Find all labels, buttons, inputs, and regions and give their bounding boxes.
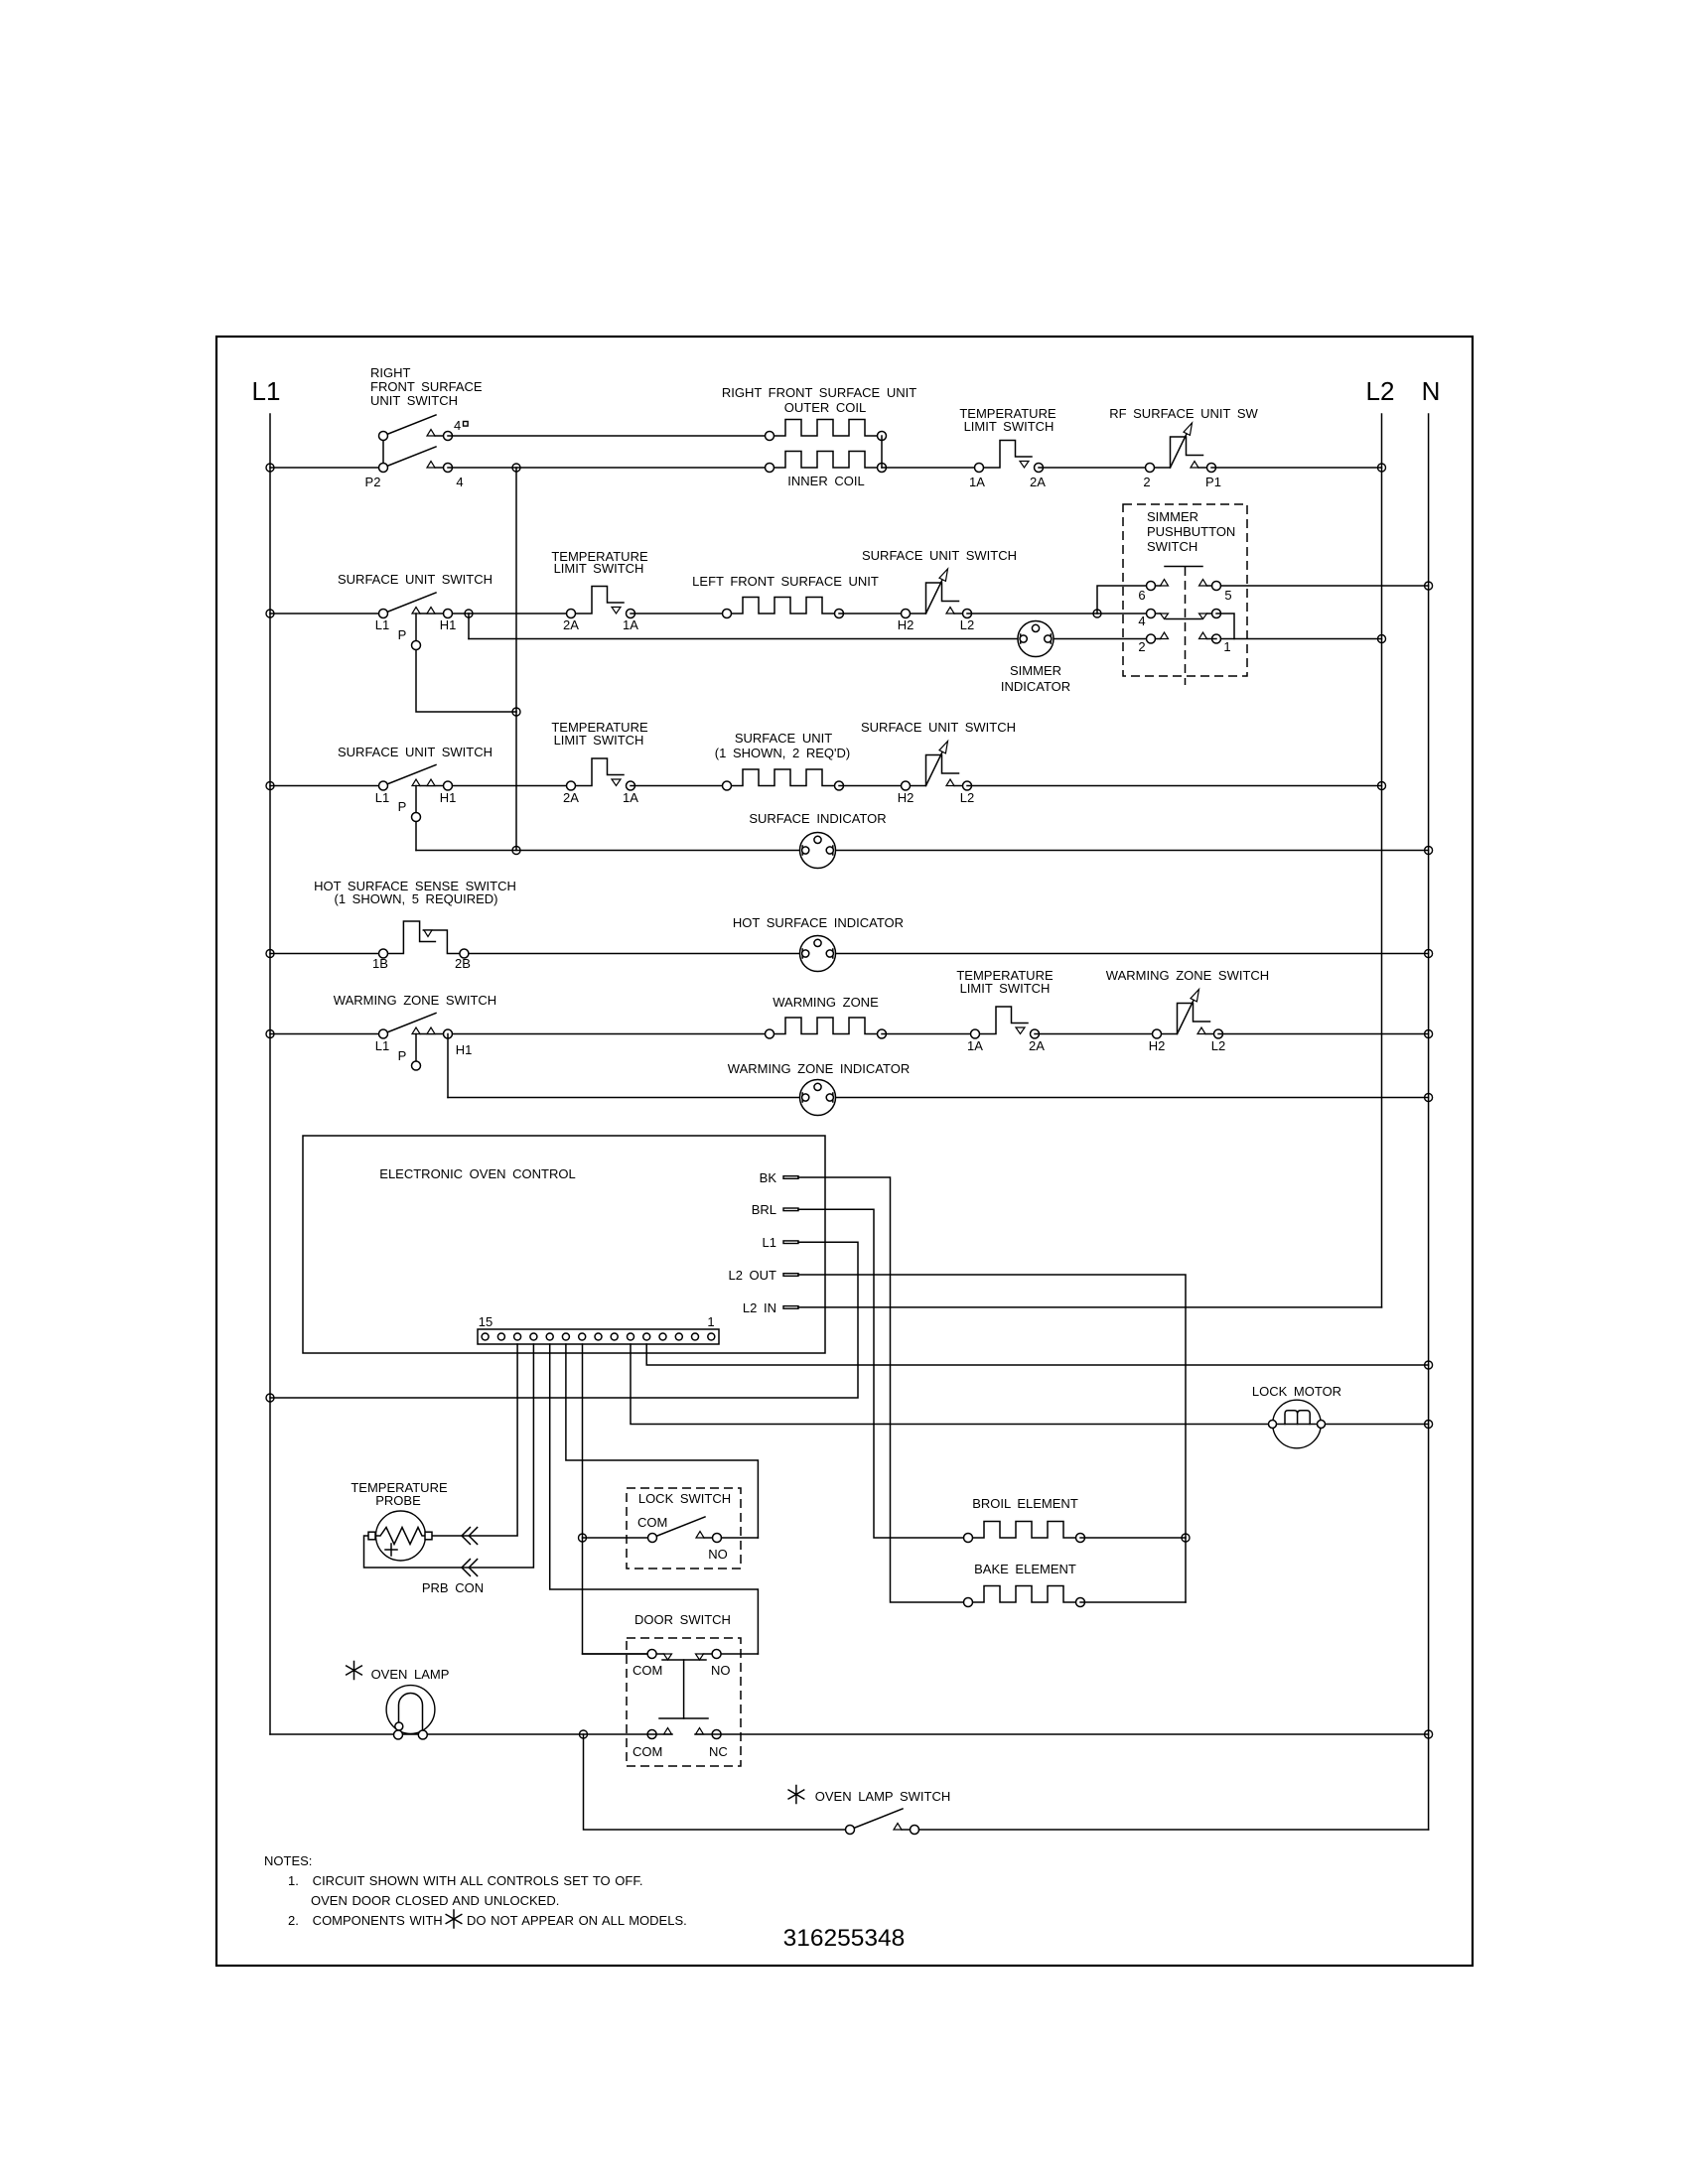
wire 1A to left front surface unit bbox=[631, 613, 727, 614]
resistor outer coil bbox=[766, 420, 887, 441]
svg-text:2: 2 bbox=[1138, 639, 1145, 654]
junction row5 at N rail bbox=[1425, 1030, 1433, 1038]
wire H1 drop to warming zone indicator line bbox=[447, 1034, 449, 1098]
svg-text:P: P bbox=[398, 799, 407, 814]
simmer contact 4 bbox=[1147, 610, 1156, 618]
wire L1 rail to 1B bbox=[270, 953, 383, 955]
wire L1 rail to row5 switch bbox=[270, 1033, 383, 1035]
asterisk note 2 bbox=[446, 1910, 462, 1928]
svg-text:COM: COM bbox=[637, 1515, 667, 1530]
thermal limit switch row2 (2A-1A) bbox=[567, 587, 635, 618]
svg-text:H2: H2 bbox=[898, 790, 914, 805]
svg-text:L2: L2 bbox=[960, 617, 974, 632]
simmer pushbutton switch dashed box bbox=[1123, 504, 1247, 676]
temperature probe right terminal bbox=[425, 1532, 432, 1540]
wire L2 contact to simmer pushbutton row 4 bbox=[967, 613, 1151, 614]
wire row5 P contact drop bbox=[415, 1034, 417, 1062]
wire lock NO to pin10 riser bbox=[722, 1537, 759, 1539]
wire L2 contact to N rail (row5) bbox=[1218, 1033, 1429, 1035]
wire L1 pin to L1 rail bbox=[270, 1242, 858, 1398]
switch lock switch (COM-NO) bbox=[648, 1517, 722, 1543]
switch hot surface sense switch (1B-2B) bbox=[388, 921, 465, 954]
indicator warming zone indicator bbox=[800, 1080, 836, 1116]
wire coil right ends link bbox=[881, 436, 883, 468]
wire N rail bbox=[1428, 414, 1430, 1830]
junction P drop / vertical bus bbox=[512, 708, 520, 716]
wire P1 to L2 rail bbox=[1211, 467, 1382, 469]
simmer contact 4 mate bbox=[1212, 610, 1221, 618]
junction L1 pin wire at L1 rail bbox=[266, 1394, 274, 1402]
wire row2 P contact drop bbox=[416, 614, 516, 712]
wire stubs row 6-5 bbox=[1156, 585, 1212, 587]
svg-text:BRL: BRL bbox=[752, 1202, 776, 1217]
lock motor body bbox=[1273, 1400, 1322, 1448]
contact P row5 bbox=[412, 1061, 421, 1070]
svg-text:LEFT FRONT SURFACE UNIT: LEFT FRONT SURFACE UNIT bbox=[692, 574, 879, 589]
wire pin6 to lock motor and N rail bbox=[631, 1344, 1429, 1425]
wire BK to bake element bbox=[798, 1177, 968, 1602]
svg-text:L1: L1 bbox=[375, 1038, 389, 1053]
svg-text:PUSHBUTTON: PUSHBUTTON bbox=[1147, 524, 1235, 539]
wire L2 OUT to elements bbox=[798, 1275, 1186, 1602]
svg-text:P2: P2 bbox=[365, 475, 381, 489]
wire lamp switch drop bbox=[584, 1734, 851, 1830]
svg-text:SURFACE UNIT SWITCH: SURFACE UNIT SWITCH bbox=[338, 572, 492, 587]
switch surface unit switch row2 (L1-H1) bbox=[379, 593, 453, 618]
svg-text:H1: H1 bbox=[440, 617, 457, 632]
svg-text:SWITCH: SWITCH bbox=[1147, 539, 1197, 554]
wire inner coil to limit switch 1A bbox=[882, 467, 979, 469]
svg-text:2A: 2A bbox=[1029, 1038, 1045, 1053]
junction oven lamp line at N rail bbox=[1425, 1730, 1433, 1738]
oven lamp right terminal bbox=[418, 1730, 427, 1739]
wire pin10 to lock switch NO bbox=[566, 1344, 759, 1538]
switch right front surface unit, pole 4a bbox=[379, 415, 453, 441]
svg-text:PRB CON: PRB CON bbox=[422, 1580, 484, 1595]
wire hot surface indicator line bbox=[469, 953, 1429, 955]
svg-text:OVEN LAMP: OVEN LAMP bbox=[371, 1667, 450, 1682]
svg-text:L2: L2 bbox=[1366, 376, 1395, 406]
simmer contact 5 bbox=[1212, 582, 1221, 591]
lock motor left terminal bbox=[1269, 1421, 1277, 1429]
svg-text:1: 1 bbox=[707, 1314, 714, 1329]
svg-text:NO: NO bbox=[711, 1663, 731, 1678]
terminal strip connector bbox=[478, 1329, 719, 1344]
asterisk oven lamp bbox=[347, 1662, 362, 1680]
wire row1 contact 4 to inner coil bbox=[448, 467, 770, 469]
svg-text:2A: 2A bbox=[563, 790, 579, 805]
svg-text:COM: COM bbox=[633, 1663, 662, 1678]
junction lock motor line at N rail bbox=[1425, 1421, 1433, 1429]
wire row 4 closed-contact bar bbox=[1166, 618, 1201, 620]
svg-text:OVEN DOOR CLOSED AND UNLOCKED.: OVEN DOOR CLOSED AND UNLOCKED. bbox=[311, 1893, 559, 1908]
simmer contact 1 bbox=[1212, 634, 1221, 643]
wire 2A to H2 (row5) bbox=[1035, 1033, 1157, 1035]
junction pin9 wire at lock switch COM line bbox=[579, 1534, 587, 1542]
switch surface unit switch row3 (H2-L2) bbox=[902, 742, 972, 791]
svg-text:L1: L1 bbox=[763, 1235, 776, 1250]
svg-text:(1 SHOWN, 2 REQ'D): (1 SHOWN, 2 REQ'D) bbox=[715, 746, 850, 760]
svg-text:LIMIT SWITCH: LIMIT SWITCH bbox=[960, 981, 1051, 996]
wire stubs row 4 bbox=[1156, 613, 1212, 614]
wire pin5 to N rail bbox=[646, 1344, 1428, 1365]
svg-text:4: 4 bbox=[456, 475, 463, 489]
junction simmer feed bbox=[1093, 610, 1101, 617]
svg-text:2A: 2A bbox=[1030, 475, 1046, 489]
triangle contacts row 6-5 bbox=[1161, 580, 1169, 587]
svg-text:L2: L2 bbox=[1211, 1038, 1225, 1053]
wire door switch top row COM side bbox=[583, 1653, 664, 1655]
wire oven lamp line L1 rail to door switch and N rail (left part) bbox=[270, 1733, 672, 1735]
svg-text:NC: NC bbox=[709, 1744, 728, 1759]
wire pin11 to door switch NO bbox=[550, 1344, 759, 1654]
wire pin9 to lock switch COM and door switch COM bbox=[583, 1344, 652, 1654]
junction row4 at L1 rail bbox=[266, 950, 274, 958]
thermal limit switch row3 (2A-1A) bbox=[567, 758, 635, 790]
wire row2 drop to simmer indicator line bbox=[468, 614, 470, 639]
thermal limit switch row5 (1A-2A) bbox=[971, 1007, 1040, 1038]
svg-text:NO: NO bbox=[708, 1547, 728, 1562]
svg-text:6: 6 bbox=[1138, 588, 1145, 603]
wire coil to H2 (row3) bbox=[839, 785, 906, 787]
resistor bake element bbox=[964, 1586, 1085, 1607]
oven lamp bulb bbox=[386, 1686, 435, 1734]
svg-text:H1: H1 bbox=[456, 1042, 473, 1057]
wire row1 pivot link P2 to 4a pole bbox=[382, 436, 384, 468]
wire bake element to L2 OUT riser bbox=[1080, 1601, 1186, 1603]
simmer pushbutton actuator dashed stem bbox=[1185, 567, 1187, 685]
wire 1A to surface unit coil (row3) bbox=[631, 785, 727, 787]
wire vertical bus from row1 down to surface indicator line bbox=[515, 468, 517, 851]
contact P row2 bbox=[412, 641, 421, 650]
wire door switch top row NO side bbox=[704, 1653, 759, 1655]
wire coil to H2 (row2) bbox=[839, 613, 906, 614]
pin L2 IN stub bbox=[783, 1306, 798, 1309]
contact door switch bottom COM bbox=[647, 1730, 656, 1739]
wire pin9 junction to lock COM bbox=[583, 1537, 648, 1539]
junction hot surface indicator line at N rail bbox=[1425, 950, 1433, 958]
wire contact 1 to L2 rail bbox=[1221, 638, 1382, 640]
svg-text:5: 5 bbox=[1224, 588, 1231, 603]
pin BRL stub bbox=[783, 1208, 798, 1211]
electronic oven control box bbox=[303, 1136, 825, 1353]
junction row3 at L2 rail bbox=[1378, 782, 1386, 790]
svg-text:2A: 2A bbox=[563, 617, 579, 632]
svg-text:BROIL ELEMENT: BROIL ELEMENT bbox=[972, 1496, 1078, 1511]
contact 1B bbox=[379, 949, 388, 958]
simmer contact 6 bbox=[1147, 582, 1156, 591]
svg-text:L1: L1 bbox=[252, 376, 281, 406]
contact door switch top NO bbox=[712, 1650, 721, 1659]
switch RF surface unit sw (2-P1) bbox=[1146, 423, 1216, 473]
door switch top closed-contact bar bbox=[662, 1659, 706, 1661]
svg-text:4: 4 bbox=[454, 418, 461, 433]
junction row2 at L1 rail bbox=[266, 610, 274, 617]
resistor surface unit row3 bbox=[723, 769, 844, 790]
contact door switch bottom NC bbox=[712, 1730, 721, 1739]
junction row3 at L1 rail bbox=[266, 782, 274, 790]
junction vertical bus at surface indicator line bbox=[512, 847, 520, 855]
asterisk oven lamp switch bbox=[788, 1786, 804, 1804]
terminal strip pins bbox=[482, 1333, 715, 1340]
svg-text:SURFACE UNIT SWITCH: SURFACE UNIT SWITCH bbox=[338, 745, 492, 759]
wire BRL to broil element bbox=[798, 1209, 968, 1538]
svg-text:INNER COIL: INNER COIL bbox=[787, 474, 864, 488]
temperature probe resistor zigzag bbox=[376, 1528, 426, 1545]
svg-text:H2: H2 bbox=[1149, 1038, 1166, 1053]
junction row5 at L1 rail bbox=[266, 1030, 274, 1038]
door switch dashed box bbox=[627, 1638, 741, 1766]
junction row1 at L1 rail bbox=[266, 464, 274, 472]
junction oven lamp line to lamp switch drop bbox=[580, 1730, 588, 1738]
svg-text:LOCK MOTOR: LOCK MOTOR bbox=[1252, 1384, 1341, 1399]
svg-text:BK: BK bbox=[760, 1170, 777, 1185]
door switch actuator stem bbox=[683, 1660, 685, 1718]
svg-text:WARMING ZONE SWITCH: WARMING ZONE SWITCH bbox=[334, 993, 496, 1008]
svg-text:L1: L1 bbox=[375, 617, 389, 632]
svg-text:SIMMER: SIMMER bbox=[1010, 663, 1061, 678]
indicator hot surface indicator bbox=[800, 936, 836, 972]
triangle contacts row 4 (normally closed) bbox=[1161, 614, 1169, 619]
triangle contacts row 2-1 bbox=[1161, 632, 1169, 639]
svg-text:RIGHT FRONT SURFACE UNIT: RIGHT FRONT SURFACE UNIT bbox=[722, 385, 916, 400]
svg-text:LIMIT SWITCH: LIMIT SWITCH bbox=[964, 419, 1055, 434]
svg-text:WARMING ZONE: WARMING ZONE bbox=[773, 995, 879, 1010]
junction simmer row 6-5 at N rail bbox=[1425, 582, 1433, 590]
svg-text:1A: 1A bbox=[969, 475, 985, 489]
thermal limit switch row1 (1A-2A) bbox=[975, 441, 1044, 473]
wire L1 rail to row3 switch bbox=[270, 785, 383, 787]
wire oven lamp switch to N rail bbox=[919, 1829, 1429, 1831]
page border frame bbox=[216, 337, 1473, 1966]
wire 2A to RF switch contact 2 bbox=[1039, 467, 1150, 469]
svg-text:SURFACE UNIT SWITCH: SURFACE UNIT SWITCH bbox=[862, 548, 1017, 563]
svg-text:DO NOT APPEAR ON ALL MODELS.: DO NOT APPEAR ON ALL MODELS. bbox=[467, 1913, 687, 1928]
svg-text:LIMIT SWITCH: LIMIT SWITCH bbox=[554, 561, 644, 576]
junction simmer row 2-1 at L2 rail bbox=[1378, 635, 1386, 643]
contact door switch top COM bbox=[647, 1650, 656, 1659]
svg-text:1A: 1A bbox=[623, 617, 638, 632]
wire surface indicator line bbox=[416, 850, 1429, 852]
junction broil line at L2 OUT riser bbox=[1182, 1534, 1190, 1542]
pin BK stub bbox=[783, 1176, 798, 1179]
wire L2 rail bbox=[1381, 414, 1383, 1307]
svg-text:INDICATOR: INDICATOR bbox=[1001, 679, 1070, 694]
lock motor right terminal bbox=[1318, 1421, 1326, 1429]
wire row3 P contact drop to surface indicator line bbox=[415, 786, 417, 851]
svg-text:316255348: 316255348 bbox=[783, 1925, 906, 1952]
wire H1 to limit switch 2A (row3) bbox=[453, 785, 572, 787]
wire coil to 1A (row5) bbox=[882, 1033, 975, 1035]
wire pin12 to probe bottom line bbox=[364, 1344, 534, 1568]
wire row4 mate down to row 2-1 line bbox=[1216, 614, 1234, 639]
connector chevrons probe bottom line bbox=[462, 1560, 478, 1576]
junction row1 / vertical bus bbox=[512, 464, 520, 472]
svg-text:H2: H2 bbox=[898, 617, 914, 632]
svg-text:1A: 1A bbox=[967, 1038, 983, 1053]
switch oven lamp switch bbox=[846, 1809, 919, 1835]
lock switch dashed box bbox=[627, 1488, 741, 1569]
junction surface indicator line at N rail bbox=[1425, 847, 1433, 855]
svg-text:1A: 1A bbox=[623, 790, 638, 805]
svg-text:UNIT SWITCH: UNIT SWITCH bbox=[370, 393, 458, 408]
svg-text:(1 SHOWN, 5 REQUIRED): (1 SHOWN, 5 REQUIRED) bbox=[334, 891, 497, 906]
wire simmer feed up to row 6 bbox=[1097, 586, 1151, 614]
svg-text:LOCK SWITCH: LOCK SWITCH bbox=[638, 1491, 731, 1506]
svg-text:HOT SURFACE INDICATOR: HOT SURFACE INDICATOR bbox=[733, 915, 904, 930]
switch surface unit switch row2 (H2-L2) bbox=[902, 569, 972, 618]
svg-text:2: 2 bbox=[1143, 475, 1150, 489]
svg-text:L1: L1 bbox=[375, 790, 389, 805]
wire warming zone indicator line bbox=[448, 1097, 1429, 1099]
svg-text:WARMING ZONE SWITCH: WARMING ZONE SWITCH bbox=[1106, 968, 1269, 983]
resistor left front surface unit bbox=[723, 598, 844, 618]
svg-text:OUTER COIL: OUTER COIL bbox=[784, 400, 866, 415]
svg-text:1: 1 bbox=[1223, 639, 1230, 654]
triangle contacts door switch bottom row bbox=[664, 1728, 672, 1735]
svg-text:FRONT SURFACE: FRONT SURFACE bbox=[370, 379, 483, 394]
svg-text:P1: P1 bbox=[1205, 475, 1221, 489]
svg-text:NOTES:: NOTES: bbox=[264, 1853, 312, 1868]
svg-text:DOOR SWITCH: DOOR SWITCH bbox=[634, 1612, 731, 1627]
svg-text:H1: H1 bbox=[440, 790, 457, 805]
temperature probe left terminal bbox=[368, 1532, 375, 1540]
wire row1 L1 rail to switch P2 bbox=[270, 467, 383, 469]
wire H1 to warming zone coil bbox=[453, 1033, 771, 1035]
svg-text:1. CIRCUIT SHOWN WITH ALL CO: 1. CIRCUIT SHOWN WITH ALL CONTROLS SET T… bbox=[288, 1873, 642, 1888]
svg-text:SURFACE INDICATOR: SURFACE INDICATOR bbox=[749, 811, 886, 826]
junction row1 at L2 rail bbox=[1378, 464, 1386, 472]
svg-text:L2 OUT: L2 OUT bbox=[728, 1268, 776, 1283]
oven lamp upper terminal bbox=[395, 1722, 403, 1730]
connector chevrons probe top line bbox=[462, 1528, 478, 1545]
svg-text:SURFACE UNIT: SURFACE UNIT bbox=[735, 731, 832, 746]
svg-text:L2: L2 bbox=[960, 790, 974, 805]
simmer contact 2 bbox=[1147, 634, 1156, 643]
switch warming zone switch (L1-H1) bbox=[379, 1014, 453, 1039]
switch warming zone switch (H2-L2) bbox=[1153, 990, 1223, 1039]
svg-text:1B: 1B bbox=[372, 956, 388, 971]
door switch actuator bottom bar bbox=[659, 1717, 708, 1719]
svg-text:PROBE: PROBE bbox=[375, 1493, 421, 1508]
svg-text:2. COMPONENTS WITH: 2. COMPONENTS WITH bbox=[288, 1913, 443, 1928]
junction pin5 wire at N rail bbox=[1425, 1361, 1433, 1369]
svg-text:RF SURFACE UNIT SW: RF SURFACE UNIT SW bbox=[1109, 406, 1258, 421]
indicator simmer indicator bbox=[1018, 621, 1054, 657]
wire L2 IN to L2 rail bbox=[798, 1306, 1382, 1308]
wire simmer indicator line bbox=[469, 638, 1151, 640]
wire oven lamp line (right part) bbox=[695, 1733, 1429, 1735]
resistor warming zone bbox=[766, 1018, 887, 1038]
svg-text:WARMING ZONE INDICATOR: WARMING ZONE INDICATOR bbox=[728, 1061, 910, 1076]
oven lamp filament bbox=[399, 1694, 423, 1734]
svg-text:4: 4 bbox=[1138, 614, 1145, 628]
wire L1 rail to row2 switch bbox=[270, 613, 383, 614]
svg-text:LIMIT SWITCH: LIMIT SWITCH bbox=[554, 733, 644, 748]
svg-text:N: N bbox=[1422, 376, 1441, 406]
svg-text:15: 15 bbox=[479, 1314, 492, 1329]
wire H1 to limit switch 2A (row2) bbox=[453, 613, 572, 614]
switch right front surface unit, pole 4 bbox=[379, 447, 453, 473]
svg-text:ELECTRONIC OVEN CONTROL: ELECTRONIC OVEN CONTROL bbox=[379, 1166, 575, 1181]
wire L1 rail bbox=[269, 414, 271, 1734]
wire pin13 to probe top line bbox=[432, 1344, 517, 1536]
svg-text:P: P bbox=[398, 1048, 407, 1063]
simmer pushbutton actuator bar bbox=[1165, 566, 1202, 568]
temperature probe body bbox=[376, 1511, 426, 1561]
svg-text:RIGHT: RIGHT bbox=[370, 365, 411, 380]
svg-text:L2 IN: L2 IN bbox=[743, 1300, 776, 1315]
svg-text:SURFACE UNIT SWITCH: SURFACE UNIT SWITCH bbox=[861, 720, 1016, 735]
junction row2 drop to simmer indicator line bbox=[465, 610, 473, 617]
svg-text:SIMMER: SIMMER bbox=[1147, 509, 1198, 524]
wire broil element to L2 OUT riser bbox=[1080, 1537, 1186, 1539]
pin L2 OUT stub bbox=[783, 1274, 798, 1277]
svg-text:2B: 2B bbox=[455, 956, 471, 971]
contact 2B bbox=[460, 949, 469, 958]
oven lamp left terminal bbox=[394, 1730, 403, 1739]
svg-text:BAKE ELEMENT: BAKE ELEMENT bbox=[974, 1562, 1076, 1576]
svg-text:COM: COM bbox=[633, 1744, 662, 1759]
resistor inner coil bbox=[766, 452, 887, 473]
svg-text:OVEN LAMP SWITCH: OVEN LAMP SWITCH bbox=[815, 1789, 951, 1804]
pin L1 stub bbox=[783, 1241, 798, 1244]
wire contact 5 to N rail bbox=[1221, 585, 1429, 587]
wire L2 contact to L2 rail (row3) bbox=[967, 785, 1382, 787]
switch surface unit switch row3 (L1-H1) bbox=[379, 765, 453, 791]
svg-text:P: P bbox=[398, 627, 407, 642]
contact P row3 bbox=[412, 813, 421, 822]
triangle contacts door switch top row bbox=[664, 1654, 672, 1660]
lock motor winding symbol bbox=[1285, 1411, 1310, 1425]
indicator surface indicator bbox=[800, 833, 836, 869]
resistor broil element bbox=[964, 1522, 1085, 1543]
temperature probe polarity mark bbox=[385, 1544, 397, 1556]
junction warming zone indicator line at N rail bbox=[1425, 1094, 1433, 1102]
wire row1 contact 4a to outer coil bbox=[448, 435, 770, 437]
wire stubs row 2-1 bbox=[1156, 638, 1217, 640]
